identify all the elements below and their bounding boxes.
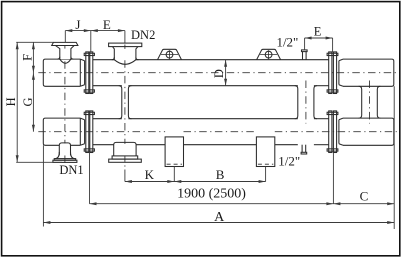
svg-text:C: C	[360, 189, 369, 204]
svg-text:H: H	[4, 97, 18, 106]
svg-text:J: J	[75, 17, 80, 32]
svg-text:1900 (2500): 1900 (2500)	[177, 186, 246, 201]
svg-text:E: E	[314, 24, 322, 38]
svg-text:1/2": 1/2"	[278, 154, 300, 169]
svg-text:G: G	[21, 97, 35, 106]
svg-text:B: B	[216, 167, 225, 182]
svg-text:K: K	[145, 167, 155, 182]
svg-text:1/2": 1/2"	[276, 34, 298, 49]
svg-text:DN1: DN1	[59, 163, 83, 177]
svg-text:DN2: DN2	[131, 28, 155, 42]
svg-text:D: D	[212, 69, 226, 78]
svg-text:A: A	[214, 210, 225, 225]
svg-text:F: F	[20, 54, 34, 61]
svg-text:E: E	[103, 17, 111, 32]
